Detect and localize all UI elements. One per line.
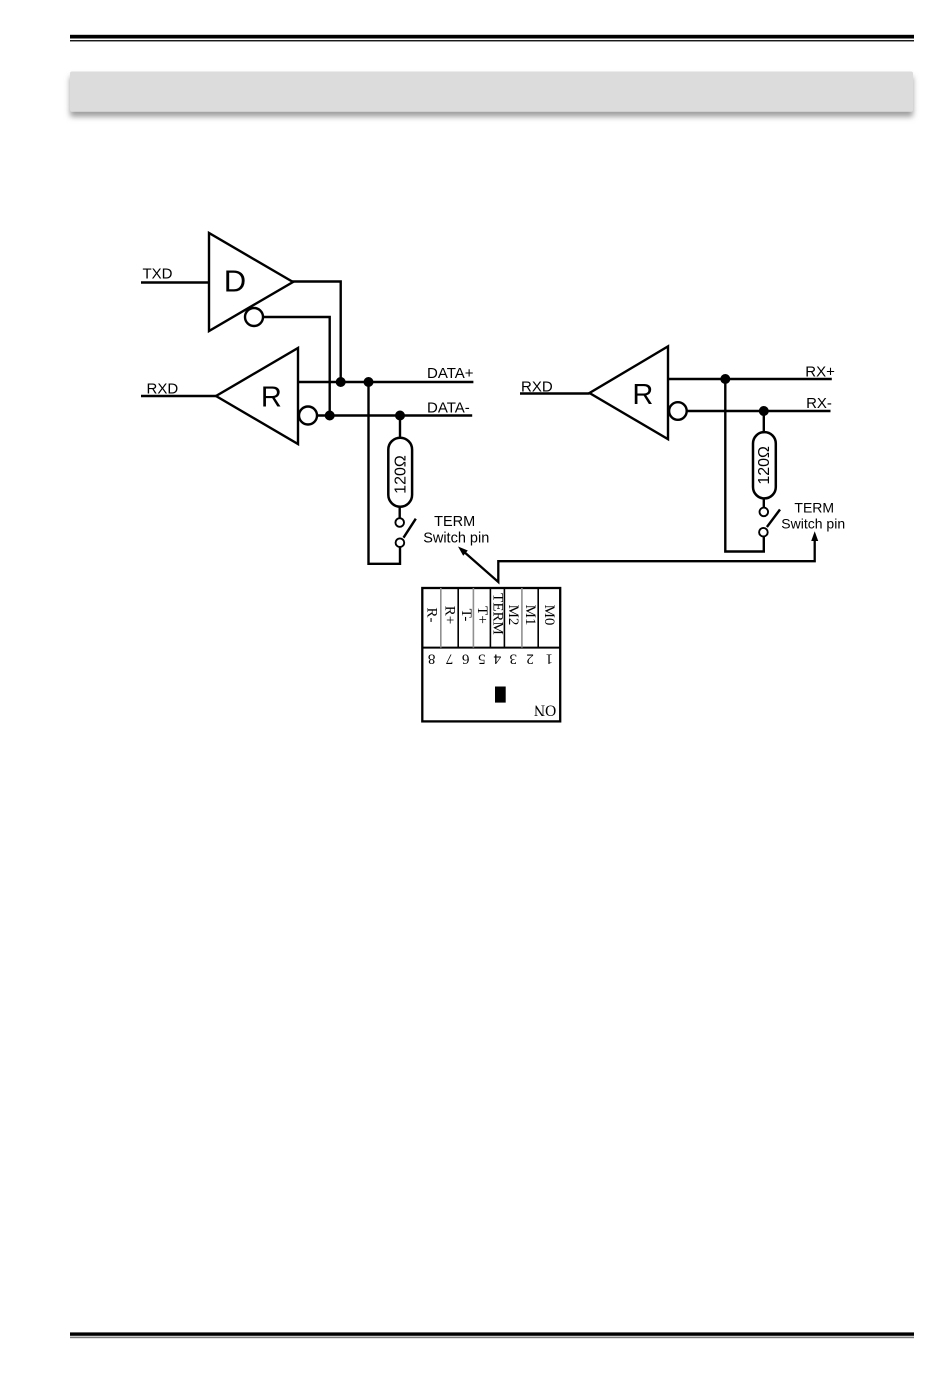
svg-text:4: 4: [493, 651, 501, 667]
switch blade right: [767, 510, 780, 528]
DIP column line 4: [489, 588, 491, 648]
DIP column line 7: [537, 588, 539, 648]
svg-text:TERM: TERM: [489, 593, 505, 635]
header banner: [70, 72, 913, 112]
driver inverting bubble: [245, 308, 263, 326]
wire DATA- to resistor: [399, 416, 401, 438]
arrowhead right pointer: [811, 531, 818, 541]
wire RX-: [687, 410, 831, 412]
DIP column line 5: [503, 588, 505, 648]
svg-text:R+: R+: [442, 606, 458, 624]
switch contact top right: [760, 508, 769, 517]
wire RX+: [668, 378, 832, 380]
top rule thin: [70, 40, 914, 41]
junction term branch on DATA+: [364, 377, 374, 387]
svg-text:Switch pin: Switch pin: [423, 530, 489, 546]
svg-text:6: 6: [462, 651, 470, 667]
DIP switch body: [422, 588, 560, 721]
svg-text:TERM: TERM: [794, 500, 834, 516]
switch contact bottom right: [759, 528, 768, 537]
wire TXD input: [141, 281, 209, 283]
receiver R triangle right: [590, 346, 669, 439]
svg-text:RX+: RX+: [805, 363, 835, 380]
svg-text:R: R: [261, 381, 282, 413]
wire RXD output right: [520, 392, 590, 394]
svg-text:120Ω: 120Ω: [392, 455, 409, 494]
DIP column line 2: [457, 588, 459, 648]
svg-text:7: 7: [445, 651, 453, 667]
junction resistor on DATA-: [395, 411, 405, 421]
svg-text:R-: R-: [424, 608, 440, 623]
arrowhead left pointer: [458, 547, 468, 556]
svg-text:D: D: [224, 263, 246, 298]
driver D triangle: [209, 233, 293, 331]
DIP column line 1: [440, 588, 442, 648]
svg-text:8: 8: [428, 651, 436, 667]
svg-text:DATA-: DATA-: [427, 400, 470, 417]
wire resistor to switch left: [399, 507, 401, 518]
wire driver bubble to DATA-: [263, 317, 330, 416]
DIP TERM actuator: [495, 687, 506, 703]
svg-text:DATA+: DATA+: [427, 365, 474, 382]
svg-text:M1: M1: [522, 605, 538, 626]
junction term branch on RX+: [720, 374, 730, 384]
svg-text:R: R: [632, 379, 653, 411]
svg-text:M0: M0: [541, 605, 557, 626]
svg-text:5: 5: [478, 651, 486, 667]
receiver R triangle left: [216, 348, 298, 444]
svg-text:120Ω: 120Ω: [756, 446, 773, 485]
resistor 120ohm right: [753, 432, 776, 498]
svg-text:3: 3: [509, 651, 517, 667]
bottom rule thick: [70, 1332, 914, 1335]
bottom rule thin gray: [70, 1337, 914, 1339]
wire driver apex to DATA+: [292, 282, 341, 383]
svg-text:1: 1: [545, 651, 553, 667]
switch contact bottom left: [396, 538, 405, 547]
wire termination return right: [725, 379, 764, 552]
junction driver out on DATA+: [336, 377, 346, 387]
junction driver out on DATA-: [325, 411, 335, 421]
DIP label band divider: [422, 647, 560, 649]
top rule thick: [70, 35, 914, 39]
switch blade left: [404, 519, 416, 538]
svg-text:ON: ON: [534, 701, 556, 718]
receiver bubble left: [299, 407, 317, 425]
svg-text:RX-: RX-: [806, 395, 832, 412]
wire RX- to resistor: [763, 411, 765, 432]
receiver bubble right: [669, 402, 687, 420]
DIP column line 3: [472, 588, 474, 648]
DIP column line 6: [521, 588, 523, 648]
svg-text:Switch pin: Switch pin: [781, 516, 845, 532]
switch contact top left: [395, 518, 404, 527]
wire resistor to switch right: [763, 498, 765, 507]
pointer polyline TERM pin: [463, 535, 815, 583]
junction resistor on RX-: [759, 406, 769, 416]
svg-text:TERM: TERM: [434, 514, 475, 530]
svg-text:TXD: TXD: [143, 266, 173, 283]
svg-text:2: 2: [526, 651, 534, 667]
wire RXD output left: [141, 395, 216, 397]
resistor 120ohm left: [388, 438, 412, 507]
svg-text:M2: M2: [505, 605, 521, 626]
wire DATA+: [298, 381, 473, 383]
svg-text:T-: T-: [458, 609, 474, 622]
wire DATA-: [317, 414, 472, 416]
svg-text:T+: T+: [474, 606, 490, 624]
wire termination return left: [369, 382, 401, 564]
